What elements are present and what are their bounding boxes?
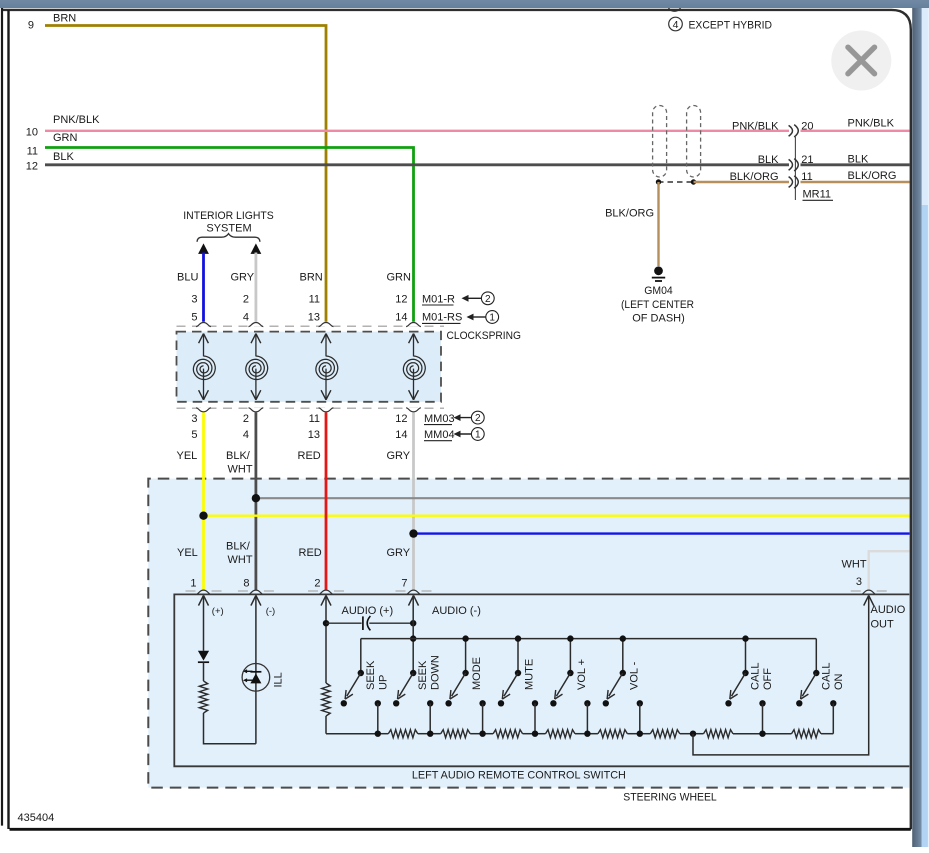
junction node top bus 465.6 [462, 635, 468, 641]
junction node ladder 693.0 [690, 731, 696, 737]
switch CALL OFF [725, 670, 765, 707]
junction node on drain right [691, 179, 696, 184]
junction node YEL-bus [199, 512, 207, 520]
left audio remote control switch box border [174, 594, 909, 766]
switch SEEK DOWN [393, 670, 433, 707]
svg-text:BLK: BLK [758, 154, 779, 166]
svg-text:PNK/BLK: PNK/BLK [732, 120, 779, 132]
svg-text:2: 2 [243, 413, 249, 425]
wire PNK/BLK right segment [801, 130, 910, 132]
svg-text:EXCEPT HYBRID: EXCEPT HYBRID [689, 20, 773, 32]
ladder resistor R4 [535, 730, 587, 738]
svg-text:5: 5 [191, 429, 197, 441]
connector M01-R label with ref 2 [422, 293, 455, 305]
svg-text:OF DASH): OF DASH) [632, 313, 685, 325]
wire MODE contact to resistor ladder [482, 703, 484, 733]
svg-text:BLK/: BLK/ [226, 541, 251, 553]
svg-text:4: 4 [243, 312, 249, 324]
svg-text:BRN: BRN [53, 13, 76, 25]
wire BLK/ORG ground drop [657, 182, 659, 266]
wire resistor to LED loop [204, 713, 256, 744]
junction node ladder 587.4 [584, 731, 590, 737]
connector MR11 body line [794, 137, 796, 200]
svg-text:STEERING WHEEL: STEERING WHEEL [623, 791, 717, 803]
svg-text:M01-RS: M01-RS [422, 312, 462, 324]
switch top bus [361, 638, 817, 640]
svg-text:BLK: BLK [53, 151, 74, 163]
wire SEEK contact to resistor ladder [429, 703, 431, 733]
frame outer left line [1, 8, 3, 826]
svg-text:MODE: MODE [471, 657, 483, 690]
svg-text:WHT: WHT [228, 554, 253, 566]
resistor on pin 2 branch [322, 683, 330, 716]
svg-text:3: 3 [191, 413, 197, 425]
pin 2 wire upper [325, 595, 327, 683]
connector MR11 label [803, 189, 834, 201]
wire top bus to switch MODE [465, 639, 467, 673]
svg-text:11: 11 [309, 293, 320, 305]
svg-text:GRY: GRY [231, 272, 255, 284]
wire YEL vertical [202, 412, 205, 590]
left margin row numbers 9-12 [26, 20, 38, 173]
switch CALL ON [796, 670, 836, 707]
wire BLK/ORG left segment to connector [694, 181, 790, 183]
svg-text:3: 3 [856, 576, 862, 588]
wire BLU vertical [202, 253, 205, 322]
wire colour labels above switch [177, 541, 411, 567]
switch connector pin hump 2 [238, 590, 274, 594]
svg-text:MM03: MM03 [424, 413, 455, 425]
svg-text:2: 2 [485, 294, 491, 305]
wire WHT from right edge to pin 3 [869, 551, 910, 590]
svg-text:VOL -: VOL - [628, 661, 640, 690]
junction node ladder 535.0 [532, 731, 538, 737]
ground GM04 symbol [652, 266, 665, 281]
svg-text:YEL: YEL [177, 547, 198, 559]
connector MR11 pin 11 symbol [789, 177, 793, 188]
connector MM pin hump 4 [406, 408, 421, 412]
svg-text:GRN: GRN [387, 272, 412, 284]
junction node ladder 639.8 [637, 731, 643, 737]
svg-text:M01-R: M01-R [422, 293, 455, 305]
wire MUTE contact to resistor ladder [534, 703, 536, 733]
connector MM pin hump 2 [249, 408, 264, 412]
wire BLK right segment [801, 163, 910, 166]
junction node ladder 430.2 [427, 731, 433, 737]
svg-text:2: 2 [314, 578, 320, 590]
svg-text:2: 2 [243, 293, 249, 305]
svg-text:WHT: WHT [228, 464, 253, 476]
svg-text:AUDIO (-): AUDIO (-) [432, 605, 481, 617]
svg-text:13: 13 [308, 312, 320, 324]
svg-text:ILL: ILL [273, 672, 285, 687]
svg-text:12: 12 [395, 293, 407, 305]
wire GRY vertical (top) [254, 253, 257, 322]
switch VOL + [550, 670, 590, 707]
junction node top bus 622.8 [620, 635, 626, 641]
svg-text:1: 1 [475, 430, 481, 441]
steering wheel box dashed border [148, 479, 909, 788]
connector M01-RS label with ref 1 [422, 312, 462, 324]
connector M01 pin hump 4 [406, 323, 421, 327]
capacitor between AUDIO(+) and AUDIO(-) [326, 616, 413, 630]
wire VOL + contact to resistor ladder [586, 703, 588, 733]
svg-text:BLK: BLK [848, 153, 869, 165]
svg-text:AUDIO: AUDIO [871, 604, 906, 616]
pin entry arrow 3 [321, 595, 331, 605]
svg-text:CALL: CALL [820, 662, 832, 690]
top bus corner drop to CALL ON [815, 639, 817, 673]
wire 9 BRN horizontal+vertical to clockspring pin 11 [45, 26, 326, 322]
svg-text:MM04: MM04 [424, 429, 455, 441]
bus wire GRY horizontal to right audio switch [256, 497, 910, 499]
wire RED vertical [325, 412, 328, 590]
pin 7 wire [412, 595, 414, 673]
connector MR11 pin 20 symbol [789, 125, 793, 136]
svg-text:4: 4 [243, 429, 249, 441]
arrow to interior lights (GRY) [251, 243, 262, 254]
svg-text:5: 5 [191, 312, 197, 324]
frame inner left line [7, 10, 9, 829]
svg-text:MUTE: MUTE [524, 659, 536, 690]
svg-text:LEFT AUDIO REMOTE CONTROL SWIT: LEFT AUDIO REMOTE CONTROL SWITCH [412, 770, 626, 782]
switch SEEK UP [341, 670, 381, 707]
svg-text:UP: UP [377, 675, 389, 690]
svg-text:BRN: BRN [300, 272, 323, 284]
junction node on drain left [656, 179, 661, 184]
junction node ladder 762.5 [759, 731, 765, 737]
svg-text:ON: ON [833, 673, 845, 690]
svg-text:CALL: CALL [750, 662, 762, 690]
svg-text:GRY: GRY [387, 450, 411, 462]
svg-text:11: 11 [27, 145, 38, 157]
svg-text:BLU: BLU [177, 272, 198, 284]
svg-text:11: 11 [309, 413, 320, 425]
switch pin numbers 1 8 2 7 3 [190, 576, 862, 590]
svg-text:GRN: GRN [53, 132, 78, 144]
right scrollbar track [922, 8, 929, 847]
wire diode to resistor [203, 662, 205, 681]
svg-text:9: 9 [28, 20, 34, 32]
note circled 4 partial (clipped by top bar) [668, 0, 682, 11]
svg-text:4: 4 [673, 19, 679, 31]
svg-text:BLK/: BLK/ [226, 450, 251, 462]
wire 12 BLK horizontal [45, 163, 789, 166]
svg-text:VOL +: VOL + [576, 659, 588, 690]
svg-text:OUT: OUT [871, 619, 895, 631]
connector MM pin hump 1 [196, 408, 211, 412]
close button [831, 31, 891, 91]
svg-text:435404: 435404 [18, 812, 55, 824]
wire 10 PNK/BLK horizontal [45, 130, 789, 132]
switch connector pin hump 5 [851, 590, 887, 594]
svg-text:PNK/BLK: PNK/BLK [53, 114, 100, 126]
pin entry arrow 1 [199, 595, 209, 605]
pin entry arrow 2 [251, 595, 261, 605]
ground GM04 label [621, 285, 694, 325]
svg-text:RED: RED [298, 450, 321, 462]
switch connector pin hump 3 [308, 590, 344, 594]
ladder resistor R5 [587, 730, 639, 738]
svg-text:DOWN: DOWN [430, 655, 442, 690]
svg-text:GRY: GRY [387, 547, 411, 559]
junction node GRY-bus [409, 529, 417, 537]
svg-text:YEL: YEL [177, 450, 198, 462]
svg-text:WHT: WHT [842, 559, 867, 571]
svg-text:SEEK: SEEK [417, 660, 429, 690]
bus wire BLU horizontal [414, 532, 910, 534]
svg-text:(+): (+) [212, 606, 224, 617]
wire top bus to switch MUTE [517, 639, 519, 673]
clockspring upper pin numbers row 1 (3 2 11 12) [191, 293, 407, 305]
ladder resistor R7 [693, 730, 763, 738]
svg-text:INTERIOR LIGHTS: INTERIOR LIGHTS [183, 210, 274, 222]
junction node ladder 482.6 [479, 731, 485, 737]
svg-text:SYSTEM: SYSTEM [206, 223, 251, 235]
svg-text:BLK/ORG: BLK/ORG [605, 208, 654, 220]
wire VOL - contact to resistor ladder [639, 703, 641, 733]
svg-text:12: 12 [26, 160, 38, 172]
pin entry arrow 5 [864, 595, 874, 605]
ladder resistor R3 [483, 730, 535, 738]
clockspring coil 2 [246, 334, 268, 400]
svg-text:8: 8 [243, 578, 249, 590]
switch MODE [445, 670, 485, 707]
wire 11 GRN horizontal+vertical to clockspring pin 12 [45, 148, 414, 322]
frame bottom border [10, 828, 911, 831]
svg-text:(-): (-) [266, 606, 276, 617]
connector MM dashed line [177, 407, 445, 409]
wire GRY vertical (lower) [412, 412, 415, 590]
switch connector pin hump 1 [186, 590, 222, 594]
junction node pin7-cap [410, 620, 416, 626]
clockspring lower pin numbers row 2 (5 4 13 14) [191, 429, 407, 441]
resistor ladder start from pin 2 [326, 733, 378, 735]
connector MM04 label with ref 1 [424, 429, 455, 441]
svg-text:2: 2 [475, 413, 481, 424]
pin 8 wire through LED [255, 595, 257, 743]
clockspring lower pin numbers row 1 (3 2 11 12) [191, 413, 407, 425]
connector M01 pin hump 3 [319, 323, 334, 327]
junction node pin7-top bus [410, 635, 416, 641]
svg-text:BLK/ORG: BLK/ORG [730, 171, 779, 183]
svg-text:14: 14 [395, 429, 407, 441]
svg-text:7: 7 [401, 578, 407, 590]
wire BLK/ORG dashed drain jumper [658, 181, 694, 183]
clockspring coil 1 [193, 334, 215, 400]
junction node ladder 377.8 [375, 731, 381, 737]
wire CALL contact to resistor ladder [762, 703, 764, 733]
wire top bus to switch CALL OFF [745, 639, 747, 673]
arrow to interior lights (BLU) [198, 243, 209, 254]
connector M01 pin hump 1 [196, 323, 211, 327]
wire SEEK contact to resistor ladder [377, 703, 379, 733]
twisted-pair shield right capsule (dashed) [687, 106, 701, 178]
svg-text:SEEK: SEEK [365, 660, 377, 690]
svg-text:10: 10 [26, 127, 38, 139]
top bus corner drop to SEEK UP [360, 639, 362, 673]
switch connector pin hump 4 [396, 590, 432, 594]
svg-text:12: 12 [395, 413, 407, 425]
svg-text:PNK/BLK: PNK/BLK [848, 117, 895, 129]
note 4 EXCEPT HYBRID [669, 17, 772, 31]
connector MR11 pin 21 symbol [789, 159, 793, 170]
pin entry arrow 4 [409, 595, 419, 605]
pin 1 wire with diode [203, 595, 205, 650]
clockspring upper pin numbers row 2 (5 4 13 14) [191, 312, 407, 324]
svg-text:RED: RED [299, 547, 322, 559]
wire pin2 resistor to bottom bus [325, 716, 327, 734]
svg-text:GM04: GM04 [644, 285, 673, 297]
svg-text:CLOCKSPRING: CLOCKSPRING [447, 330, 522, 342]
junction node top bus 518.0 [515, 635, 521, 641]
svg-text:1: 1 [489, 313, 495, 324]
clockspring coil 4 [403, 334, 425, 400]
clockspring coil 3 [316, 334, 338, 400]
svg-text:3: 3 [191, 293, 197, 305]
svg-text:14: 14 [395, 312, 407, 324]
resistor on pin 1 branch [199, 681, 207, 713]
label AUDIO OUT [871, 604, 906, 631]
wire top bus to switch VOL - [622, 639, 624, 673]
svg-text:1: 1 [190, 578, 196, 590]
wire colour labels below clockspring [177, 450, 411, 476]
diode on pin 1 branch [198, 651, 209, 662]
LED ILL symbol [242, 664, 270, 692]
connector MR11 pin numbers [801, 120, 813, 183]
svg-text:(LEFT CENTER: (LEFT CENTER [621, 299, 694, 311]
wire colour labels above clockspring [177, 272, 411, 284]
svg-text:AUDIO (+): AUDIO (+) [342, 605, 394, 617]
svg-text:MR11: MR11 [803, 189, 832, 201]
ladder resistor R1 [378, 730, 430, 738]
clockspring box [177, 332, 442, 402]
brace under label [197, 234, 260, 242]
switch VOL - [603, 670, 643, 707]
svg-text:OFF: OFF [762, 668, 774, 690]
wire top bus to switch VOL + [569, 639, 571, 673]
connector MM pin hump 3 [319, 408, 334, 412]
ladder resistor R2 [430, 730, 482, 738]
wire BLK/ORG right segment [801, 181, 910, 183]
connector MM03 label with ref 2 [424, 413, 455, 425]
bus wire YEL horizontal [204, 515, 910, 517]
ladder resistor R6 [640, 730, 693, 738]
junction node top bus 745.5 [742, 635, 748, 641]
wire CALL ON contact to resistor ladder [832, 703, 834, 733]
junction node top bus 570.4 [567, 635, 573, 641]
junction node BLK/WHT-bus [252, 494, 260, 502]
svg-text:13: 13 [308, 429, 320, 441]
INTERIOR LIGHTS SYSTEM label [183, 210, 274, 235]
switch MUTE [498, 670, 538, 707]
connector M01 dashed line [177, 325, 445, 327]
steering wheel box fill [148, 479, 909, 788]
audio out step wire [693, 595, 869, 755]
junction node pin2-cap [323, 620, 329, 626]
wire BLK/WHT vertical [254, 412, 257, 590]
twisted-pair shield left capsule (dashed) [653, 106, 667, 178]
svg-text:BLK/ORG: BLK/ORG [848, 170, 897, 182]
connector M01 pin hump 2 [249, 323, 264, 327]
ladder resistor R8 (to CALL ON) [763, 730, 834, 738]
